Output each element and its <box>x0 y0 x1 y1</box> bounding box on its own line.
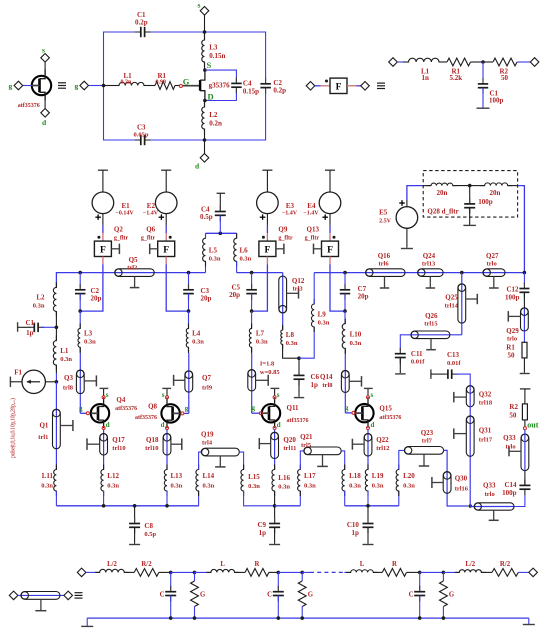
svg-text:trl7: trl7 <box>422 438 433 445</box>
svg-text:L: L <box>220 561 225 568</box>
inductor L1 0.2n on gate <box>104 72 149 86</box>
port 1 of F symbol <box>306 82 315 91</box>
svg-text:trl13: trl13 <box>422 261 436 268</box>
svg-text:g: g <box>75 82 79 91</box>
svg-text:Q4: Q4 <box>116 396 125 404</box>
wire to F block <box>315 85 330 87</box>
capacitor C13 0.01f <box>431 351 470 386</box>
svg-text:Q15: Q15 <box>379 405 392 413</box>
svg-text:trl4: trl4 <box>202 440 213 447</box>
svg-text:G: G <box>449 592 455 599</box>
svg-text:L13: L13 <box>171 472 183 480</box>
port s of model <box>198 1 209 33</box>
wire E1 to F block <box>102 214 104 242</box>
svg-text:1p: 1p <box>311 381 319 389</box>
node d of Q11 <box>273 421 281 430</box>
node ladder 1b <box>193 571 197 575</box>
transmission line Q32 trl18 <box>454 386 493 407</box>
svg-text:0.3n: 0.3n <box>349 483 361 490</box>
inductor L4 0.3n stage2 <box>186 311 204 413</box>
capacitor C9 1p <box>257 506 280 544</box>
wire trl9 to Q8 gate <box>184 412 189 414</box>
svg-text:Q31: Q31 <box>479 427 492 435</box>
node d of Q4 <box>102 421 110 430</box>
transmission line Q33 trlo (output) <box>470 482 514 521</box>
svg-text:E4: E4 <box>307 202 316 210</box>
svg-text:L20: L20 <box>403 472 415 480</box>
svg-text:g: g <box>345 404 349 412</box>
svg-text:0.3n: 0.3n <box>350 340 362 347</box>
transmission line Q25 trl14 <box>445 273 478 335</box>
svg-text:−1.4V: −1.4V <box>143 211 159 217</box>
wire Q11 drain to trl11 <box>274 430 276 470</box>
svg-text:Q13: Q13 <box>307 225 320 233</box>
capacitor C8 0.5p <box>129 506 156 544</box>
node ladder 3b <box>442 571 446 575</box>
svg-text:R: R <box>255 561 260 568</box>
node s of Q8 <box>162 391 169 399</box>
svg-text:trl10: trl10 <box>145 445 158 452</box>
svg-text:Q29: Q29 <box>506 327 519 335</box>
capacitor C (2) <box>267 572 284 618</box>
svg-text:0.2n: 0.2n <box>209 120 222 128</box>
svg-text:1p: 1p <box>351 529 359 537</box>
inductor L8 0.3n <box>281 325 299 358</box>
svg-text:0.05p: 0.05p <box>134 132 149 139</box>
svg-text:g_fltr: g_fltr <box>305 235 320 241</box>
svg-text:F1: F1 <box>14 369 22 377</box>
svg-text:L4: L4 <box>192 330 201 338</box>
svg-text:F: F <box>327 245 333 255</box>
wire gate bus seg 4 <box>314 272 524 274</box>
svg-text:Q18: Q18 <box>146 436 159 444</box>
transmission line Q33 trlo (vertical) <box>503 434 529 471</box>
inductor L3 0.3n stage1 <box>78 311 96 413</box>
transistor g35376 (model internal) <box>183 70 231 100</box>
svg-text:s: s <box>277 391 280 399</box>
resistor R2 50 (F model) <box>483 58 530 82</box>
transmission line Q22 trl12 <box>352 434 389 457</box>
inductor L15 0.3n <box>239 452 274 506</box>
svg-text:d: d <box>161 421 165 429</box>
svg-text:1n: 1n <box>422 74 430 82</box>
node below C7 <box>343 309 347 313</box>
node junction (F model) <box>481 60 485 64</box>
F block symbol <box>325 78 347 93</box>
svg-text:Q26: Q26 <box>425 312 438 320</box>
svg-text:Q16: Q16 <box>378 252 391 260</box>
svg-text:L12: L12 <box>107 472 119 480</box>
transistor Q11 atf35376 <box>252 397 309 428</box>
transistor symbol atf35376 (definition) <box>18 70 51 110</box>
node junction d_fltr <box>468 184 472 188</box>
svg-text:L/2: L/2 <box>107 561 117 568</box>
transmission line Q19 trl4 <box>201 431 239 467</box>
svg-text:100p: 100p <box>489 97 504 105</box>
svg-text:0.3n: 0.3n <box>203 483 215 490</box>
svg-text:L14: L14 <box>203 472 215 480</box>
ground below C10 <box>363 544 374 546</box>
svg-text:0.3n: 0.3n <box>209 256 221 263</box>
svg-text:0.2p: 0.2p <box>135 19 148 27</box>
svg-text:trlo: trlo <box>485 491 495 498</box>
svg-text:0.3n: 0.3n <box>278 484 290 491</box>
svg-text:50: 50 <box>508 351 516 359</box>
wire gate bus seg 3 <box>237 272 283 274</box>
svg-text:Q1: Q1 <box>39 422 48 430</box>
node d of Q15 <box>367 421 375 430</box>
node C2 tap <box>78 271 82 275</box>
resistor R1 0.98 <box>144 72 180 89</box>
svg-text:g: g <box>185 405 189 413</box>
svg-text:s: s <box>162 391 165 399</box>
wire drain bus segment B <box>275 505 301 507</box>
svg-text:R/2: R/2 <box>500 561 511 568</box>
transmission line symbol (definition) <box>9 591 82 611</box>
svg-text:Q20: Q20 <box>283 436 296 444</box>
capacitor C11 0.01f <box>395 348 425 374</box>
node C3 tap <box>187 271 191 275</box>
node C8 junction <box>133 504 137 508</box>
svg-text:trl9: trl9 <box>202 385 213 392</box>
node L12 junction <box>102 504 106 508</box>
svg-text:C9: C9 <box>257 521 266 529</box>
svg-text:2.5V: 2.5V <box>379 219 392 225</box>
ground below C6 <box>294 397 304 399</box>
svg-text:s: s <box>42 46 45 55</box>
node D <box>203 92 214 103</box>
transmission line Q16 trl6 <box>366 252 405 288</box>
node C12 junction <box>523 271 527 275</box>
capacitor C14 100p <box>502 471 530 497</box>
svg-text:0.3n: 0.3n <box>60 356 72 363</box>
svg-text:0.3n: 0.3n <box>372 483 384 490</box>
svg-text:C12: C12 <box>506 285 519 293</box>
svg-text:0.98: 0.98 <box>156 79 167 85</box>
resistor R/2 (2) <box>481 561 528 576</box>
inductor L9 0.3n <box>299 273 330 359</box>
svg-text:F: F <box>163 245 169 255</box>
svg-text:g35376: g35376 <box>209 81 231 89</box>
svg-text:−1.4V: −1.4V <box>282 211 298 217</box>
source stub Q11 <box>271 388 280 395</box>
svg-text:0.5p: 0.5p <box>200 213 213 221</box>
inductor L18 0.3n <box>341 451 361 506</box>
ground above source E2 <box>161 169 171 171</box>
transmission line Q12 trl3 <box>279 276 305 313</box>
node S <box>203 60 211 72</box>
resistor G (1) <box>191 572 206 618</box>
svg-text:Q19: Q19 <box>201 431 214 439</box>
svg-text:Q2: Q2 <box>114 225 123 233</box>
wire F1 node to trl1 <box>55 382 57 470</box>
inductor L20 0.3n <box>396 450 415 505</box>
resistor R1 50 <box>506 331 527 373</box>
svg-text:Q14: Q14 <box>320 373 333 381</box>
inductor L16 0.3n <box>272 465 291 507</box>
svg-text:L6: L6 <box>240 247 249 255</box>
source stub Q4 <box>100 388 109 395</box>
svg-text:g: g <box>9 82 13 91</box>
svg-text:L2: L2 <box>209 111 218 119</box>
svg-text:Q8: Q8 <box>148 403 157 411</box>
svg-text:C1: C1 <box>26 319 35 327</box>
ground below C9 <box>269 544 280 546</box>
resistor R (2) <box>373 561 419 576</box>
node L16/C9 junction <box>273 504 277 508</box>
svg-text:0.3n: 0.3n <box>171 483 183 490</box>
svg-text:0.3n: 0.3n <box>256 339 268 346</box>
transmission line Q29 trlo <box>506 308 528 343</box>
svg-text:Q3: Q3 <box>64 374 73 382</box>
wire input riser to gate bus <box>56 273 80 288</box>
wire ladder 4 dashed <box>302 571 351 573</box>
node C7 tap <box>343 271 347 275</box>
capacitor C6 1p <box>294 358 320 397</box>
capacitor C1 100p (F model) <box>478 62 504 108</box>
svg-text:C6: C6 <box>311 373 320 381</box>
node junction top edge <box>203 30 207 34</box>
dashed box Q28 d_fltr <box>423 171 517 218</box>
capacitor 100p d_fltr <box>464 186 493 225</box>
svg-text:E1: E1 <box>122 202 131 210</box>
node ladder 2a <box>277 571 281 575</box>
wire bridge top node <box>206 232 237 234</box>
svg-text:Q24: Q24 <box>423 252 436 260</box>
wire trl14 to trl15 <box>411 334 462 336</box>
svg-text:L18: L18 <box>349 472 361 480</box>
wire trl15 to C11 <box>400 335 411 351</box>
node s of Q15 <box>367 391 374 399</box>
svg-text:trl1: trl1 <box>38 434 48 441</box>
svg-text:R/2: R/2 <box>141 561 152 568</box>
svg-text:I=1.8: I=1.8 <box>260 360 275 367</box>
svg-text:100p: 100p <box>505 293 520 301</box>
svg-text:s: s <box>106 391 109 399</box>
svg-text:0.3n: 0.3n <box>107 483 119 490</box>
wire trl18 to trl17 <box>469 386 471 506</box>
wire E2 to F block <box>165 214 167 242</box>
svg-text:0.3n: 0.3n <box>403 483 415 490</box>
wire F block Q13 output to bias node <box>330 257 345 312</box>
equivalence symbol <box>58 83 66 88</box>
svg-text:−1.4V: −1.4V <box>303 211 319 217</box>
source stub Q15 <box>364 388 373 395</box>
node rail 1b <box>193 616 197 620</box>
wire ground to E3 <box>266 170 268 192</box>
svg-text:pulse(t,0,1u,0.10p,10p,20p,...: pulse(t,0,1u,0.10p,10p,20p,...) <box>10 398 17 458</box>
svg-text:atf35376: atf35376 <box>287 418 309 424</box>
svg-text:R2: R2 <box>509 403 518 411</box>
inductor L6 0.3n <box>234 233 252 272</box>
inductor L17 0.3n <box>298 451 317 506</box>
svg-text:C8: C8 <box>144 522 153 530</box>
inductor L3 0.15n <box>202 32 226 70</box>
svg-text:C3: C3 <box>137 124 146 132</box>
node F1 junction <box>55 380 59 384</box>
svg-text:L7: L7 <box>256 330 265 338</box>
svg-text:Q5: Q5 <box>129 256 138 264</box>
svg-text:C14: C14 <box>504 481 517 489</box>
inductor L2 0.3n input <box>33 282 57 327</box>
node out <box>523 421 538 471</box>
node junction at box left <box>102 84 106 88</box>
svg-text:g_fltr: g_fltr <box>141 235 156 241</box>
svg-text:trl8: trl8 <box>63 385 74 392</box>
node L13 junction <box>165 504 169 508</box>
transmission line Q30 trl16 <box>432 472 469 494</box>
wire trl7 to trl16 <box>444 450 468 506</box>
svg-text:L1: L1 <box>60 347 69 355</box>
svg-text:L19: L19 <box>372 472 384 480</box>
svg-text:g_fltr: g_fltr <box>114 235 129 241</box>
node ladder 3a <box>418 571 422 575</box>
svg-text:−0.14V: −0.14V <box>116 211 135 217</box>
port g of model <box>75 81 89 90</box>
inductor L (1) <box>206 561 239 572</box>
node d of Q8 <box>161 421 169 430</box>
port s (definition) <box>41 46 50 75</box>
feedback box with C4 <box>205 70 237 100</box>
svg-text:trl8: trl8 <box>322 382 333 389</box>
gate node G <box>179 77 189 88</box>
transmission line Q27 trlo <box>483 252 505 288</box>
resistor R/2 (1) <box>124 561 170 576</box>
svg-text:0.3n: 0.3n <box>248 483 260 490</box>
svg-text:G: G <box>200 592 206 599</box>
svg-text:L10: L10 <box>350 331 362 339</box>
svg-text:out: out <box>527 421 538 430</box>
svg-text:atf35376: atf35376 <box>135 415 157 421</box>
svg-text:w=0.85: w=0.85 <box>260 369 281 376</box>
svg-text:G: G <box>308 592 314 599</box>
capacitor C3 0.05p <box>134 124 151 146</box>
inductor 20n (right) <box>470 183 518 197</box>
svg-text:1p: 1p <box>259 529 267 537</box>
svg-text:Q25: Q25 <box>445 294 458 302</box>
wire ladder 6 <box>443 571 459 573</box>
capacitor C2 0.2p right edge <box>260 78 286 95</box>
wire Q4 drain to trl10 <box>103 430 105 470</box>
transmission line Q18 trl10 <box>145 434 182 456</box>
wire d_fltr to drain line <box>518 186 525 273</box>
svg-text:trl15: trl15 <box>424 321 438 328</box>
wire ground to E4 <box>329 170 331 192</box>
svg-text:S: S <box>207 60 212 70</box>
wire ground to E2 <box>165 170 167 192</box>
svg-text:g_fltr: g_fltr <box>278 235 293 241</box>
svg-text:5.2k: 5.2k <box>450 74 463 82</box>
svg-text:L3: L3 <box>209 44 218 52</box>
svg-text:0.01f: 0.01f <box>447 360 461 367</box>
node C5 tap <box>250 271 254 275</box>
svg-text:d: d <box>371 421 375 429</box>
ground (F model) <box>477 107 490 109</box>
capacitor C4 0.15p <box>231 77 259 95</box>
wire g to model box <box>89 85 104 87</box>
svg-text:Q11: Q11 <box>287 404 300 412</box>
port ladder input <box>77 568 99 577</box>
svg-text:L16: L16 <box>278 474 290 482</box>
svg-text:atf35376: atf35376 <box>115 406 137 412</box>
svg-text:1p: 1p <box>26 329 33 337</box>
wire trlo to C14 <box>514 489 525 506</box>
transmission line Q3 trl8 <box>63 370 97 394</box>
ground above source E3 <box>262 169 272 171</box>
node s of Q4 <box>102 391 109 399</box>
svg-text:trl14: trl14 <box>445 303 459 310</box>
node rail 3b <box>442 616 446 620</box>
svg-text:Q23: Q23 <box>421 429 434 437</box>
transmission line Q5 trl2 <box>115 256 155 288</box>
svg-text:C11: C11 <box>411 350 423 358</box>
svg-text:s: s <box>198 1 201 10</box>
inductor L1 0.3n input <box>53 327 72 382</box>
ground d_fltr <box>463 224 476 226</box>
node ladder 2b <box>300 571 304 575</box>
svg-text:Q33: Q33 <box>503 434 516 442</box>
resistor G (2) <box>298 572 313 618</box>
svg-text:0.5p: 0.5p <box>144 531 156 538</box>
svg-text:0.3n: 0.3n <box>240 256 252 263</box>
port 1 of F model <box>389 58 403 67</box>
svg-text:0.3n: 0.3n <box>286 340 298 347</box>
svg-text:Q33: Q33 <box>483 482 496 490</box>
voltage source E4 <box>303 192 341 220</box>
wire from F block <box>347 85 361 87</box>
transmission line Q1 trl1 <box>38 409 73 449</box>
wire ground to E1 <box>102 170 104 192</box>
resistor G (3) <box>440 572 455 618</box>
svg-text:20p: 20p <box>201 295 212 303</box>
svg-text:20p: 20p <box>91 295 102 303</box>
inductor L/2 (2) <box>455 561 486 572</box>
transmission line Q7 trl9 <box>174 371 213 392</box>
svg-text:C4: C4 <box>243 80 252 88</box>
port g (definition) <box>9 81 33 90</box>
transmission line Q31 trl17 <box>454 416 493 456</box>
node rail 3a <box>418 616 422 620</box>
svg-text:L9: L9 <box>318 311 327 319</box>
svg-text:g: g <box>252 404 256 412</box>
svg-text:Q6: Q6 <box>146 225 155 233</box>
svg-text:0.3n: 0.3n <box>192 339 204 346</box>
wire E5 to d_fltr <box>407 186 423 207</box>
svg-text:100p: 100p <box>478 198 493 206</box>
ground above source E1 <box>98 169 108 171</box>
svg-text:Q30: Q30 <box>455 475 468 483</box>
port d (definition) <box>41 97 50 128</box>
inductor L2 0.2n <box>202 101 222 141</box>
inductor L7 0.3n stage3 <box>249 311 268 413</box>
svg-text:0.2p: 0.2p <box>273 86 286 94</box>
svg-text:20n: 20n <box>437 189 448 197</box>
F block Q9 g_fltr <box>259 225 293 256</box>
F block Q2 g_fltr <box>94 225 128 256</box>
resistor R2 50 <box>509 389 530 427</box>
equivalence symbol F <box>377 83 385 88</box>
svg-text:trl11: trl11 <box>283 445 296 452</box>
pulse parameter text <box>10 398 17 458</box>
transistor Q4 atf35376 <box>79 396 137 428</box>
wire Q8 drain to trl10 <box>166 430 168 470</box>
svg-text:Q22: Q22 <box>376 436 389 444</box>
inductor L11 0.3n <box>41 465 56 506</box>
svg-text:atf35376: atf35376 <box>379 415 401 421</box>
capacitor C2 20p <box>75 273 102 312</box>
wire E4 to F block <box>329 214 331 242</box>
F block Q6 g_fltr <box>141 225 175 256</box>
